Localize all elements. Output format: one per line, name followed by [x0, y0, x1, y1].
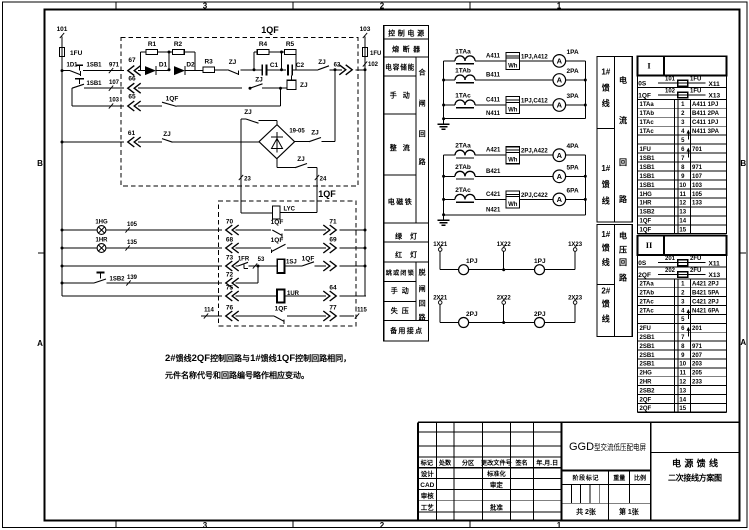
svg-text:B421: B421	[486, 169, 501, 175]
svg-text:72: 72	[226, 272, 234, 279]
svg-text:A: A	[557, 172, 563, 181]
svg-text:2QF: 2QF	[638, 272, 651, 279]
svg-text:重量: 重量	[613, 474, 625, 482]
svg-text:2SB1: 2SB1	[640, 335, 656, 341]
svg-text:115: 115	[357, 308, 367, 314]
svg-text:971: 971	[109, 63, 120, 69]
svg-text:处数: 处数	[438, 459, 452, 467]
svg-text:1SB1: 1SB1	[640, 156, 656, 162]
svg-text:ZJ: ZJ	[318, 59, 326, 66]
svg-text:N411 3PA: N411 3PA	[692, 129, 720, 135]
svg-text:A: A	[37, 339, 43, 348]
svg-text:1QF: 1QF	[302, 256, 315, 263]
svg-text:1PJ: 1PJ	[534, 258, 546, 265]
svg-text:B411 2PA: B411 2PA	[692, 111, 720, 117]
svg-text:A: A	[557, 151, 563, 160]
svg-text:比例: 比例	[634, 474, 646, 482]
svg-text:1QF: 1QF	[166, 96, 179, 103]
svg-text:流: 流	[619, 115, 627, 125]
svg-text:ZJ: ZJ	[255, 77, 263, 84]
svg-text:66: 66	[128, 76, 136, 83]
svg-text:19-05: 19-05	[289, 129, 305, 135]
svg-text:971: 971	[692, 344, 703, 350]
svg-text:C411: C411	[486, 98, 501, 104]
svg-text:2QF: 2QF	[640, 397, 652, 403]
svg-text:11: 11	[680, 192, 687, 198]
svg-text:1PA: 1PA	[567, 49, 579, 56]
svg-text:2TAc: 2TAc	[455, 187, 471, 194]
svg-text:1SB2: 1SB2	[640, 210, 656, 216]
svg-text:路: 路	[619, 194, 628, 204]
svg-text:R4: R4	[259, 41, 268, 48]
svg-text:R3: R3	[204, 59, 213, 66]
svg-text:14: 14	[679, 397, 686, 403]
svg-text:线: 线	[602, 314, 610, 324]
svg-text:2FU: 2FU	[640, 326, 651, 332]
svg-text:电: 电	[619, 231, 627, 241]
svg-text:11: 11	[680, 371, 687, 377]
svg-text:1QF: 1QF	[640, 219, 652, 225]
svg-text:1TAb: 1TAb	[455, 68, 471, 75]
svg-text:24: 24	[320, 177, 327, 183]
svg-text:1SB2: 1SB2	[109, 277, 125, 283]
svg-text:二次接线方案图: 二次接线方案图	[668, 473, 722, 483]
svg-text:1SB1: 1SB1	[640, 165, 656, 171]
svg-text:2TAb: 2TAb	[640, 290, 655, 296]
svg-text:53: 53	[258, 257, 265, 263]
svg-text:6PA: 6PA	[567, 187, 579, 194]
svg-text:X13: X13	[709, 272, 721, 279]
svg-text:12: 12	[679, 201, 686, 207]
svg-text:1HR: 1HR	[95, 238, 108, 244]
svg-text:23: 23	[244, 177, 251, 183]
svg-text:201: 201	[665, 256, 676, 262]
svg-text:馈: 馈	[601, 243, 610, 253]
svg-text:1QF: 1QF	[638, 92, 651, 99]
svg-text:ZJ: ZJ	[229, 59, 237, 66]
svg-text:CAD: CAD	[420, 482, 434, 489]
svg-text:电容储能: 电容储能	[385, 63, 414, 72]
svg-text:R5: R5	[286, 41, 295, 48]
svg-text:C2: C2	[296, 62, 305, 69]
svg-text:205: 205	[692, 371, 703, 377]
svg-text:A421 2PJ: A421 2PJ	[692, 282, 719, 288]
svg-text:105: 105	[692, 192, 703, 198]
svg-text:共 2张: 共 2张	[576, 507, 597, 516]
svg-text:102: 102	[368, 62, 379, 68]
svg-text:2PJ: 2PJ	[534, 311, 546, 318]
svg-text:1SB1: 1SB1	[86, 81, 102, 87]
svg-text:LYC: LYC	[284, 207, 296, 213]
svg-text:1FU: 1FU	[370, 51, 381, 57]
svg-text:0S: 0S	[638, 81, 647, 88]
svg-text:回: 回	[419, 129, 426, 138]
svg-text:1HG: 1HG	[640, 192, 653, 198]
svg-text:设计: 设计	[421, 469, 435, 478]
svg-text:阶段标记: 阶段标记	[573, 474, 599, 482]
svg-text:D2: D2	[186, 62, 195, 69]
svg-text:回: 回	[419, 299, 426, 308]
svg-text:批准: 批准	[490, 502, 504, 511]
svg-text:1SB1: 1SB1	[86, 63, 102, 69]
svg-text:1TAa: 1TAa	[640, 102, 655, 108]
svg-text:1QF: 1QF	[640, 228, 652, 234]
svg-text:A: A	[557, 195, 563, 204]
svg-text:1QF: 1QF	[271, 237, 284, 244]
svg-text:回: 回	[619, 258, 627, 267]
svg-text:1SB1: 1SB1	[640, 174, 656, 180]
svg-text:ZJ: ZJ	[297, 156, 305, 163]
svg-text:审定: 审定	[490, 480, 504, 489]
svg-text:1SJ: 1SJ	[286, 260, 297, 266]
svg-text:1QF: 1QF	[271, 219, 284, 226]
svg-text:2HR: 2HR	[640, 379, 653, 385]
svg-text:3PA: 3PA	[567, 93, 579, 100]
svg-text:1PJ: 1PJ	[466, 258, 478, 265]
svg-text:71: 71	[329, 219, 337, 226]
svg-text:2: 2	[380, 2, 385, 11]
svg-text:2SB1: 2SB1	[640, 353, 656, 359]
svg-text:2TAb: 2TAb	[455, 164, 471, 171]
svg-text:电磁铁: 电磁铁	[388, 197, 412, 206]
svg-text:202: 202	[665, 268, 676, 274]
svg-text:1FU: 1FU	[690, 88, 701, 94]
svg-text:2SB1: 2SB1	[640, 362, 656, 368]
svg-text:签名: 签名	[514, 459, 527, 467]
svg-text:ZJ: ZJ	[244, 109, 252, 116]
svg-text:GGD型交流低压配电屏: GGD型交流低压配电屏	[569, 441, 646, 453]
svg-text:X11: X11	[709, 260, 721, 267]
svg-text:1QF: 1QF	[275, 306, 288, 313]
svg-text:回: 回	[619, 158, 627, 167]
svg-text:1TAc: 1TAc	[640, 129, 655, 135]
svg-text:年.月.日: 年.月.日	[536, 459, 558, 467]
svg-text:10: 10	[679, 183, 686, 189]
svg-text:15: 15	[679, 228, 686, 234]
svg-text:A411 1PJ: A411 1PJ	[692, 102, 718, 108]
svg-text:139: 139	[127, 275, 138, 281]
svg-text:3: 3	[203, 2, 208, 11]
svg-text:13: 13	[679, 210, 686, 216]
svg-text:Wh: Wh	[508, 158, 518, 164]
svg-text:107: 107	[109, 80, 120, 86]
svg-text:1SB1: 1SB1	[640, 183, 656, 189]
svg-text:闸: 闸	[419, 98, 426, 107]
svg-text:5PA: 5PA	[567, 164, 579, 171]
svg-text:207: 207	[692, 353, 703, 359]
svg-text:2TAa: 2TAa	[640, 282, 655, 288]
svg-text:线: 线	[602, 98, 610, 108]
svg-text:馈: 馈	[601, 299, 610, 309]
svg-text:2#馈线2QF控制回路与1#馈线1QF控制回路相同，: 2#馈线2QF控制回路与1#馈线1QF控制回路相同，	[165, 353, 351, 364]
svg-text:C1: C1	[270, 62, 279, 69]
svg-text:2QF: 2QF	[640, 406, 652, 412]
svg-text:II: II	[646, 240, 653, 250]
svg-text:4PA: 4PA	[567, 143, 579, 150]
svg-text:1PJ,A412: 1PJ,A412	[521, 54, 548, 60]
svg-text:101: 101	[665, 77, 676, 83]
svg-text:A: A	[740, 338, 746, 347]
svg-text:Wh: Wh	[508, 202, 518, 208]
svg-text:审核: 审核	[421, 491, 435, 500]
svg-text:1TAc: 1TAc	[455, 93, 471, 100]
svg-text:1FU: 1FU	[640, 147, 651, 153]
svg-text:线: 线	[602, 196, 610, 206]
svg-text:701: 701	[692, 147, 703, 153]
svg-text:Wh: Wh	[508, 108, 518, 114]
svg-text:1FU: 1FU	[690, 77, 701, 83]
svg-text:A: A	[557, 57, 563, 66]
svg-text:14: 14	[679, 219, 686, 225]
svg-text:N421 6PA: N421 6PA	[692, 308, 720, 314]
svg-text:1: 1	[557, 521, 562, 530]
svg-text:101: 101	[57, 26, 68, 33]
svg-text:2PJ,C422: 2PJ,C422	[521, 193, 548, 199]
svg-text:A: A	[557, 101, 563, 110]
svg-text:2FU: 2FU	[690, 268, 701, 274]
svg-text:第 1张: 第 1张	[619, 507, 640, 516]
svg-text:107: 107	[692, 174, 703, 180]
svg-text:压: 压	[619, 246, 627, 255]
svg-text:1TAa: 1TAa	[455, 48, 471, 55]
svg-text:1FU: 1FU	[70, 50, 83, 57]
svg-text:A411: A411	[486, 53, 501, 59]
svg-text:A: A	[557, 76, 563, 85]
svg-text:10: 10	[679, 362, 686, 368]
svg-text:B411: B411	[486, 73, 501, 79]
svg-text:路: 路	[619, 272, 628, 282]
svg-text:1QF: 1QF	[261, 25, 279, 35]
svg-text:135: 135	[127, 240, 138, 246]
svg-text:C411 1PJ: C411 1PJ	[692, 120, 718, 126]
svg-text:N421: N421	[486, 207, 501, 213]
svg-text:2TAa: 2TAa	[455, 143, 471, 150]
svg-text:R1: R1	[148, 41, 157, 48]
svg-text:2SB2: 2SB2	[640, 388, 656, 394]
svg-text:N411: N411	[486, 111, 501, 117]
svg-text:ZJ: ZJ	[300, 82, 308, 89]
svg-text:B: B	[740, 159, 746, 168]
svg-text:1PJ,C412: 1PJ,C412	[521, 99, 548, 105]
svg-text:B: B	[37, 159, 43, 168]
svg-text:1HG: 1HG	[95, 220, 108, 226]
svg-text:2FU: 2FU	[690, 256, 701, 262]
svg-text:线: 线	[602, 257, 610, 267]
svg-text:76: 76	[226, 305, 234, 312]
svg-text:C421 2PJ: C421 2PJ	[692, 299, 719, 305]
svg-text:元件名称代号和回路编号略作相应变动。: 元件名称代号和回路编号略作相应变动。	[165, 370, 309, 380]
svg-text:1X23: 1X23	[568, 242, 583, 248]
svg-text:2PJ,A422: 2PJ,A422	[521, 149, 548, 155]
svg-text:103: 103	[109, 98, 120, 104]
svg-text:ZJ: ZJ	[163, 131, 171, 138]
svg-text:熔断器: 熔断器	[392, 45, 421, 54]
svg-text:A421: A421	[486, 148, 501, 154]
svg-text:105: 105	[127, 222, 138, 228]
svg-text:Wh: Wh	[508, 63, 518, 69]
svg-text:路: 路	[419, 313, 427, 322]
svg-text:B421 5PA: B421 5PA	[692, 290, 720, 296]
svg-text:2TAc: 2TAc	[640, 308, 655, 314]
svg-text:103: 103	[692, 183, 703, 189]
svg-text:更改文件号: 更改文件号	[481, 459, 512, 467]
svg-text:分区: 分区	[462, 459, 475, 467]
svg-text:69: 69	[329, 237, 337, 244]
svg-text:1TAb: 1TAb	[640, 111, 655, 117]
svg-text:75: 75	[226, 285, 234, 292]
svg-text:1: 1	[557, 2, 562, 11]
svg-text:203: 203	[692, 362, 703, 368]
svg-text:1TAc: 1TAc	[640, 120, 655, 126]
svg-text:201: 201	[692, 326, 703, 332]
svg-text:2TAc: 2TAc	[640, 299, 655, 305]
svg-text:103: 103	[360, 26, 371, 33]
svg-text:1HR: 1HR	[640, 201, 653, 207]
svg-text:R2: R2	[174, 41, 183, 48]
svg-text:C421: C421	[486, 192, 501, 198]
svg-text:61: 61	[128, 130, 136, 137]
svg-text:73: 73	[226, 255, 234, 262]
svg-text:1#: 1#	[601, 164, 610, 173]
svg-text:64: 64	[329, 285, 337, 292]
svg-text:电 源 馈 线: 电 源 馈 线	[672, 458, 718, 469]
svg-text:233: 233	[692, 379, 703, 385]
svg-text:脱: 脱	[419, 268, 426, 277]
svg-text:路: 路	[419, 157, 427, 166]
svg-text:971: 971	[692, 165, 703, 171]
svg-text:1QF: 1QF	[318, 189, 336, 199]
svg-text:闸: 闸	[419, 284, 426, 293]
svg-text:标记: 标记	[420, 459, 434, 467]
svg-text:工艺: 工艺	[421, 502, 435, 511]
svg-text:1X21: 1X21	[433, 242, 448, 248]
svg-text:68: 68	[226, 237, 234, 244]
svg-text:1FR: 1FR	[238, 257, 250, 263]
svg-text:1#: 1#	[601, 230, 610, 239]
svg-text:114: 114	[204, 308, 214, 314]
svg-text:电: 电	[619, 75, 627, 85]
svg-text:133: 133	[692, 201, 703, 207]
svg-text:65: 65	[128, 94, 136, 101]
svg-text:15: 15	[679, 406, 686, 412]
svg-text:ZJ: ZJ	[311, 130, 319, 137]
svg-text:102: 102	[665, 88, 676, 94]
svg-text:2HG: 2HG	[640, 371, 653, 377]
svg-text:0S: 0S	[638, 260, 647, 267]
svg-text:合: 合	[418, 68, 427, 77]
svg-text:馈: 馈	[601, 83, 610, 93]
svg-text:2PA: 2PA	[567, 68, 579, 75]
svg-text:1X22: 1X22	[497, 242, 512, 248]
svg-text:标准化: 标准化	[486, 470, 506, 478]
svg-text:馈: 馈	[601, 179, 610, 189]
svg-text:跳或闭锁: 跳或闭锁	[386, 269, 415, 277]
svg-text:2#: 2#	[601, 287, 610, 296]
svg-text:67: 67	[128, 57, 136, 64]
svg-text:1#: 1#	[601, 68, 610, 77]
svg-text:3: 3	[203, 521, 208, 530]
svg-text:X13: X13	[709, 93, 721, 100]
svg-text:13: 13	[679, 388, 686, 394]
svg-text:12: 12	[679, 379, 686, 385]
svg-text:77: 77	[329, 305, 337, 312]
svg-text:2SB1: 2SB1	[640, 344, 656, 350]
svg-text:70: 70	[226, 219, 234, 226]
svg-text:2PJ: 2PJ	[466, 311, 478, 318]
svg-text:X11: X11	[709, 81, 721, 88]
svg-text:2: 2	[380, 521, 385, 530]
svg-text:D1: D1	[159, 62, 168, 69]
